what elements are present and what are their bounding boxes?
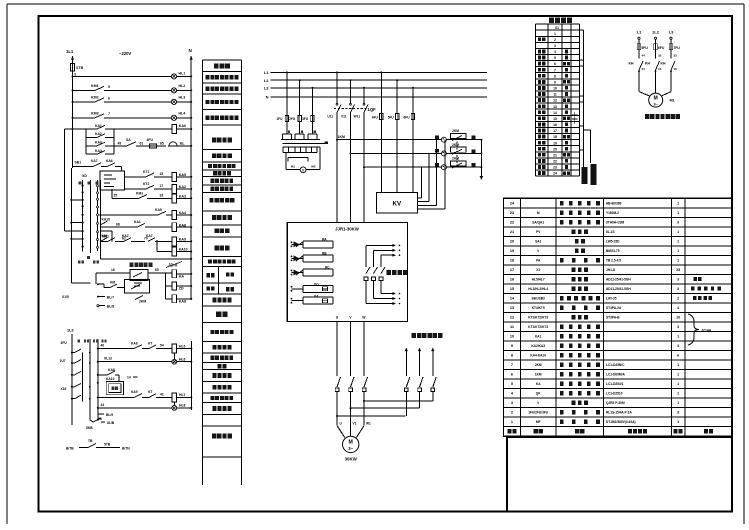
svg-text:17: 17 — [553, 129, 557, 133]
svg-text:BL/7: BL/7 — [107, 296, 114, 300]
svg-text:41: 41 — [160, 393, 164, 397]
svg-text:5TB: 5TB — [104, 443, 111, 447]
svg-text:3: 3 — [677, 221, 679, 225]
svg-text:44: 44 — [101, 403, 105, 407]
svg-text:B/TN: B/TN — [122, 446, 130, 450]
svg-text:KA8: KA8 — [179, 223, 186, 227]
svg-text:10: 10 — [676, 316, 680, 320]
svg-text:HL5/HL7: HL5/HL7 — [532, 278, 545, 282]
svg-text:KA10: KA10 — [179, 248, 188, 252]
svg-text:4FU: 4FU — [147, 138, 154, 142]
svg-text:5KB: 5KB — [86, 426, 93, 430]
svg-text:1: 1 — [677, 363, 679, 367]
svg-text:33: 33 — [160, 194, 164, 198]
svg-text:2KM: 2KM — [452, 157, 459, 161]
svg-text:L3: L3 — [669, 30, 674, 35]
svg-text:3: 3 — [677, 325, 679, 329]
svg-text:KA: KA — [536, 382, 541, 386]
svg-text:25: 25 — [114, 194, 118, 198]
svg-text:18: 18 — [553, 135, 557, 139]
svg-text:SA1: SA1 — [535, 240, 541, 244]
svg-text:KA1: KA1 — [95, 124, 102, 128]
svg-text:KA8: KA8 — [131, 341, 138, 345]
svg-text:8L/B: 8L/B — [107, 421, 115, 425]
svg-text:7: 7 — [108, 112, 110, 116]
svg-text:1: 1 — [677, 259, 679, 263]
svg-text:10: 10 — [510, 335, 514, 339]
svg-text:DT-862/380V(3-63A): DT-862/380V(3-63A) — [606, 420, 636, 424]
svg-text:N: N — [266, 95, 269, 100]
svg-text:6: 6 — [108, 96, 110, 100]
svg-text:KT: KT — [148, 341, 152, 345]
svg-text:11: 11 — [553, 93, 557, 97]
svg-text:KA4: KA4 — [179, 211, 186, 215]
svg-text:Y160M-2: Y160M-2 — [606, 211, 619, 215]
svg-text:24: 24 — [553, 172, 557, 176]
svg-text:JZ14A: JZ14A — [701, 329, 712, 333]
svg-text:21: 21 — [553, 153, 557, 157]
svg-text:20: 20 — [510, 240, 514, 244]
svg-text:TB 2.5-4.5: TB 2.5-4.5 — [606, 259, 621, 263]
svg-text:3: 3 — [511, 401, 513, 405]
svg-text:KA: KA — [179, 275, 185, 279]
svg-text:40: 40 — [101, 344, 105, 348]
svg-text:3FU: 3FU — [302, 117, 309, 121]
svg-text:3~: 3~ — [654, 102, 659, 106]
svg-text:2: 2 — [677, 297, 679, 301]
svg-text:KM1: KM1 — [136, 191, 143, 195]
svg-text:ST3PA-2A: ST3PA-2A — [606, 306, 622, 310]
svg-text:2FU: 2FU — [289, 117, 296, 121]
svg-text:5: 5 — [108, 85, 110, 89]
svg-text:KV: KV — [392, 201, 401, 208]
svg-text:8: 8 — [511, 354, 513, 358]
svg-text:3TH0H+23M: 3TH0H+23M — [606, 221, 625, 225]
svg-text:2KM: 2KM — [535, 363, 542, 367]
svg-text:1: 1 — [511, 420, 513, 424]
svg-text:KA2: KA2 — [122, 234, 129, 238]
svg-text:16: 16 — [510, 278, 514, 282]
svg-text:KM2: KM2 — [91, 96, 99, 100]
svg-text:54: 54 — [160, 344, 164, 348]
svg-text:49: 49 — [118, 142, 122, 146]
svg-text:65: 65 — [160, 141, 164, 145]
svg-text:SB1: SB1 — [75, 161, 82, 165]
svg-text:8: 8 — [554, 74, 556, 78]
svg-text:M1: M1 — [291, 165, 295, 169]
svg-text:1: 1 — [677, 230, 679, 234]
svg-text:KT1: KT1 — [143, 170, 150, 174]
svg-text:7: 7 — [511, 363, 513, 367]
svg-text:ST3PA-B: ST3PA-B — [606, 316, 620, 320]
svg-text:14: 14 — [127, 375, 131, 379]
svg-text:1L2: 1L2 — [652, 30, 660, 35]
svg-text:12: 12 — [510, 316, 514, 320]
svg-text:TB: TB — [88, 439, 93, 443]
svg-text:25: 25 — [676, 268, 680, 272]
svg-text:KH: KH — [629, 62, 634, 66]
svg-text:12: 12 — [553, 99, 557, 103]
svg-text:HL5: HL5 — [179, 344, 186, 348]
svg-text:KA1: KA1 — [535, 335, 542, 339]
svg-text:44: 44 — [642, 67, 646, 71]
svg-text:32: 32 — [658, 54, 662, 58]
svg-text:6L-1S: 6L-1S — [606, 230, 615, 234]
svg-text:3: 3 — [677, 287, 679, 291]
svg-text:KA8: KA8 — [179, 300, 186, 304]
svg-text:XD: XD — [82, 174, 87, 178]
svg-text:KT4/KT5: KT4/KT5 — [532, 306, 545, 310]
svg-text:JJR1-30KW: JJR1-30KW — [335, 227, 360, 232]
svg-text:2: 2 — [554, 38, 556, 42]
svg-text:1FU: 1FU — [276, 117, 283, 121]
svg-text:DA: DA — [314, 294, 319, 298]
svg-text:SA: SA — [126, 138, 131, 142]
svg-text:LW5-15D: LW5-15D — [606, 240, 620, 244]
svg-text:RL1S-15/4A P-2A: RL1S-15/4A P-2A — [606, 411, 632, 415]
svg-text:20: 20 — [553, 147, 557, 151]
svg-text:SB1/SB3: SB1/SB3 — [532, 297, 546, 301]
svg-text:1: 1 — [677, 240, 679, 244]
svg-text:KA7: KA7 — [91, 159, 98, 163]
svg-text:2KM: 2KM — [452, 129, 459, 133]
svg-text:1KM: 1KM — [338, 135, 345, 139]
svg-text:W11: W11 — [354, 115, 361, 119]
svg-text:7: 7 — [554, 68, 556, 72]
svg-text:X1: X1 — [536, 268, 540, 272]
svg-text:6: 6 — [554, 62, 556, 66]
svg-text:1: 1 — [677, 373, 679, 377]
svg-text:JH1-D: JH1-D — [606, 268, 616, 272]
svg-text:KA2: KA2 — [95, 132, 102, 136]
svg-text:15: 15 — [160, 172, 164, 176]
svg-text:7FU: 7FU — [673, 46, 680, 50]
svg-text:RC: RC — [325, 266, 330, 270]
svg-text:61: 61 — [140, 141, 144, 145]
svg-text:23: 23 — [510, 211, 514, 215]
svg-text:L3: L3 — [264, 85, 269, 90]
svg-text:HL7: HL7 — [179, 393, 186, 397]
svg-text:KA6: KA6 — [106, 159, 113, 163]
svg-text:5: 5 — [554, 56, 556, 60]
svg-text:HL2: HL2 — [179, 84, 186, 88]
svg-text:W1: W1 — [366, 422, 371, 426]
svg-text:V11: V11 — [341, 115, 347, 119]
svg-text:11: 11 — [510, 325, 514, 329]
svg-text:AD11-25/41-5GH: AD11-25/41-5GH — [606, 278, 631, 282]
svg-text:X16: X16 — [61, 387, 67, 391]
svg-text:1: 1 — [677, 249, 679, 253]
svg-text:RB: RB — [322, 252, 327, 256]
svg-text:15: 15 — [553, 117, 557, 121]
svg-text:MF: MF — [536, 420, 541, 424]
svg-text:KT1/KT2/KT3: KT1/KT2/KT3 — [528, 316, 548, 320]
svg-text:2: 2 — [511, 411, 513, 415]
svg-text:1: 1 — [677, 335, 679, 339]
svg-text:~220V: ~220V — [119, 51, 131, 56]
svg-text:L2: L2 — [264, 78, 269, 83]
svg-text:M: M — [537, 211, 540, 215]
svg-text:HL6: HL6 — [179, 358, 186, 362]
svg-text:KA5: KA5 — [179, 173, 186, 177]
svg-text:X1/5: X1/5 — [62, 295, 69, 299]
svg-text:3: 3 — [677, 411, 679, 415]
svg-text:V1: V1 — [353, 422, 357, 426]
svg-text:9: 9 — [554, 80, 556, 84]
svg-text:1U7: 1U7 — [60, 359, 66, 363]
svg-text:KT2: KT2 — [143, 182, 150, 186]
svg-text:17: 17 — [160, 184, 164, 188]
svg-text:KA2/KA3: KA2/KA3 — [531, 344, 545, 348]
svg-text:13: 13 — [510, 306, 514, 310]
svg-text:KM1: KM1 — [102, 235, 109, 239]
svg-text:18: 18 — [510, 259, 514, 263]
svg-text:13: 13 — [553, 105, 557, 109]
svg-text:22: 22 — [553, 160, 557, 164]
svg-text:1: 1 — [677, 202, 679, 206]
svg-text:16: 16 — [658, 67, 662, 71]
svg-text:KM1: KM1 — [91, 84, 99, 88]
svg-text:KA6: KA6 — [179, 124, 186, 128]
svg-text:LC1-D09M/A: LC1-D09M/A — [606, 373, 625, 377]
svg-text:KA4-KA10: KA4-KA10 — [530, 354, 546, 358]
svg-text:1L3: 1L3 — [67, 329, 74, 333]
svg-text:KM: KM — [110, 280, 115, 284]
svg-text:44: 44 — [642, 54, 646, 58]
svg-text:1: 1 — [677, 420, 679, 424]
svg-text:KH: KH — [661, 62, 666, 66]
svg-text:HL8: HL8 — [179, 404, 186, 408]
svg-text:1: 1 — [677, 382, 679, 386]
svg-text:10: 10 — [553, 87, 557, 91]
svg-text:19: 19 — [553, 141, 557, 145]
svg-text:KA9: KA9 — [131, 390, 138, 394]
svg-text:LC1-D25N/C: LC1-D25N/C — [606, 363, 625, 367]
svg-text:65: 65 — [155, 268, 159, 272]
svg-text:KA2: KA2 — [179, 185, 186, 189]
svg-text:LC1-D254/1: LC1-D254/1 — [606, 382, 624, 386]
svg-text:6FU: 6FU — [404, 115, 411, 119]
svg-text:HL3: HL3 — [179, 96, 186, 100]
svg-text:M2: M2 — [311, 165, 315, 169]
svg-text:48: 48 — [98, 417, 102, 421]
svg-text:BL/9: BL/9 — [106, 413, 113, 417]
svg-text:L1: L1 — [637, 30, 642, 35]
svg-text:4: 4 — [554, 50, 556, 54]
svg-text:2KM: 2KM — [139, 300, 146, 304]
svg-text:6: 6 — [511, 373, 513, 377]
svg-text:3: 3 — [677, 344, 679, 348]
svg-text:17: 17 — [510, 268, 514, 272]
svg-text:HB-BX380: HB-BX380 — [606, 202, 622, 206]
svg-text:KT: KT — [148, 390, 152, 394]
svg-text:RA: RA — [322, 237, 327, 241]
svg-text:KA5: KA5 — [155, 208, 162, 212]
svg-text:5: 5 — [511, 382, 513, 386]
svg-text:KA8: KA8 — [108, 368, 115, 372]
svg-text:KA3: KA3 — [179, 195, 186, 199]
svg-text:AD11-25/41-5GH: AD11-25/41-5GH — [606, 287, 631, 291]
svg-text:KM3: KM3 — [91, 112, 99, 116]
svg-text:KH: KH — [645, 62, 650, 66]
svg-text:L1: L1 — [264, 70, 269, 75]
svg-text:KA9: KA9 — [179, 238, 186, 242]
svg-text:1: 1 — [677, 392, 679, 396]
svg-text:1: 1 — [554, 32, 556, 36]
svg-text:B/TB: B/TB — [66, 446, 74, 450]
svg-text:U11: U11 — [327, 115, 333, 119]
svg-text:3: 3 — [554, 44, 556, 48]
svg-text:9: 9 — [511, 344, 513, 348]
svg-text:KT1/KT2/KT3: KT1/KT2/KT3 — [528, 325, 548, 329]
svg-text:5FU: 5FU — [388, 115, 395, 119]
svg-text:1QF: 1QF — [368, 107, 377, 112]
svg-text:EL: EL — [180, 141, 185, 145]
svg-text:KA15: KA15 — [102, 218, 111, 222]
svg-text:KA7: KA7 — [146, 234, 153, 238]
svg-text:1KM: 1KM — [535, 373, 542, 377]
svg-text:15: 15 — [510, 287, 514, 291]
svg-text:14: 14 — [553, 111, 557, 115]
svg-text:23: 23 — [553, 166, 557, 170]
svg-text:5FU: 5FU — [641, 46, 648, 50]
svg-text:DO: DO — [314, 282, 319, 286]
svg-text:ZD: ZD — [179, 287, 184, 291]
svg-text:1: 1 — [677, 211, 679, 215]
svg-text:1: 1 — [677, 401, 679, 405]
svg-text:16: 16 — [674, 67, 678, 71]
svg-text:HL1/HL2/HL4: HL1/HL2/HL4 — [528, 287, 548, 291]
svg-text:4FU: 4FU — [372, 115, 379, 119]
svg-text:4: 4 — [677, 306, 679, 310]
svg-text:X1: X1 — [555, 26, 559, 30]
svg-text:HL1: HL1 — [179, 72, 186, 76]
svg-text:2KM: 2KM — [452, 143, 459, 147]
svg-text:M: M — [349, 440, 353, 446]
svg-text:BMX3-75: BMX3-75 — [606, 249, 620, 253]
svg-text:STB: STB — [76, 66, 84, 70]
svg-text:1FU/2FU/3FU: 1FU/2FU/3FU — [528, 411, 549, 415]
svg-text:68: 68 — [116, 222, 120, 226]
svg-text:3~: 3~ — [348, 446, 353, 451]
svg-text:BL/8: BL/8 — [107, 305, 114, 309]
svg-text:6FU: 6FU — [658, 46, 665, 50]
svg-text:KA3: KA3 — [95, 141, 102, 145]
svg-text:KA4: KA4 — [95, 149, 102, 153]
svg-text:LC1-D2510: LC1-D2510 — [606, 392, 623, 396]
svg-text:M: M — [654, 96, 658, 102]
svg-text:XL13: XL13 — [104, 357, 112, 361]
svg-text:16: 16 — [553, 123, 557, 127]
svg-text:3FU: 3FU — [61, 341, 68, 345]
svg-text:QJR3 P-30M: QJR3 P-30M — [606, 401, 625, 405]
svg-text:33: 33 — [674, 54, 678, 58]
svg-text:KA1: KA1 — [134, 220, 141, 224]
svg-text:22: 22 — [510, 221, 514, 225]
svg-text:3: 3 — [677, 278, 679, 282]
svg-text:HL4: HL4 — [179, 111, 186, 115]
svg-text:PA: PA — [536, 259, 541, 263]
svg-text:QK: QK — [536, 392, 541, 396]
svg-text:KA10: KA10 — [106, 377, 115, 381]
svg-text:19: 19 — [510, 249, 514, 253]
svg-text:M1: M1 — [670, 99, 675, 103]
svg-text:21: 21 — [510, 230, 514, 234]
svg-text:LAY-25: LAY-25 — [606, 297, 617, 301]
svg-text:30KW: 30KW — [345, 457, 358, 462]
svg-text:16: 16 — [111, 268, 115, 272]
svg-text:1L1: 1L1 — [66, 49, 74, 54]
svg-text:SA/QA1: SA/QA1 — [532, 221, 544, 225]
svg-text:6: 6 — [677, 354, 679, 358]
